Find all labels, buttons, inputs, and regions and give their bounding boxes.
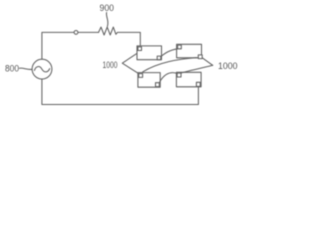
svg-text:800: 800	[5, 64, 19, 75]
svg-text:1000: 1000	[103, 60, 118, 71]
svg-text:900: 900	[100, 3, 115, 14]
svg-text:1000: 1000	[218, 61, 238, 72]
